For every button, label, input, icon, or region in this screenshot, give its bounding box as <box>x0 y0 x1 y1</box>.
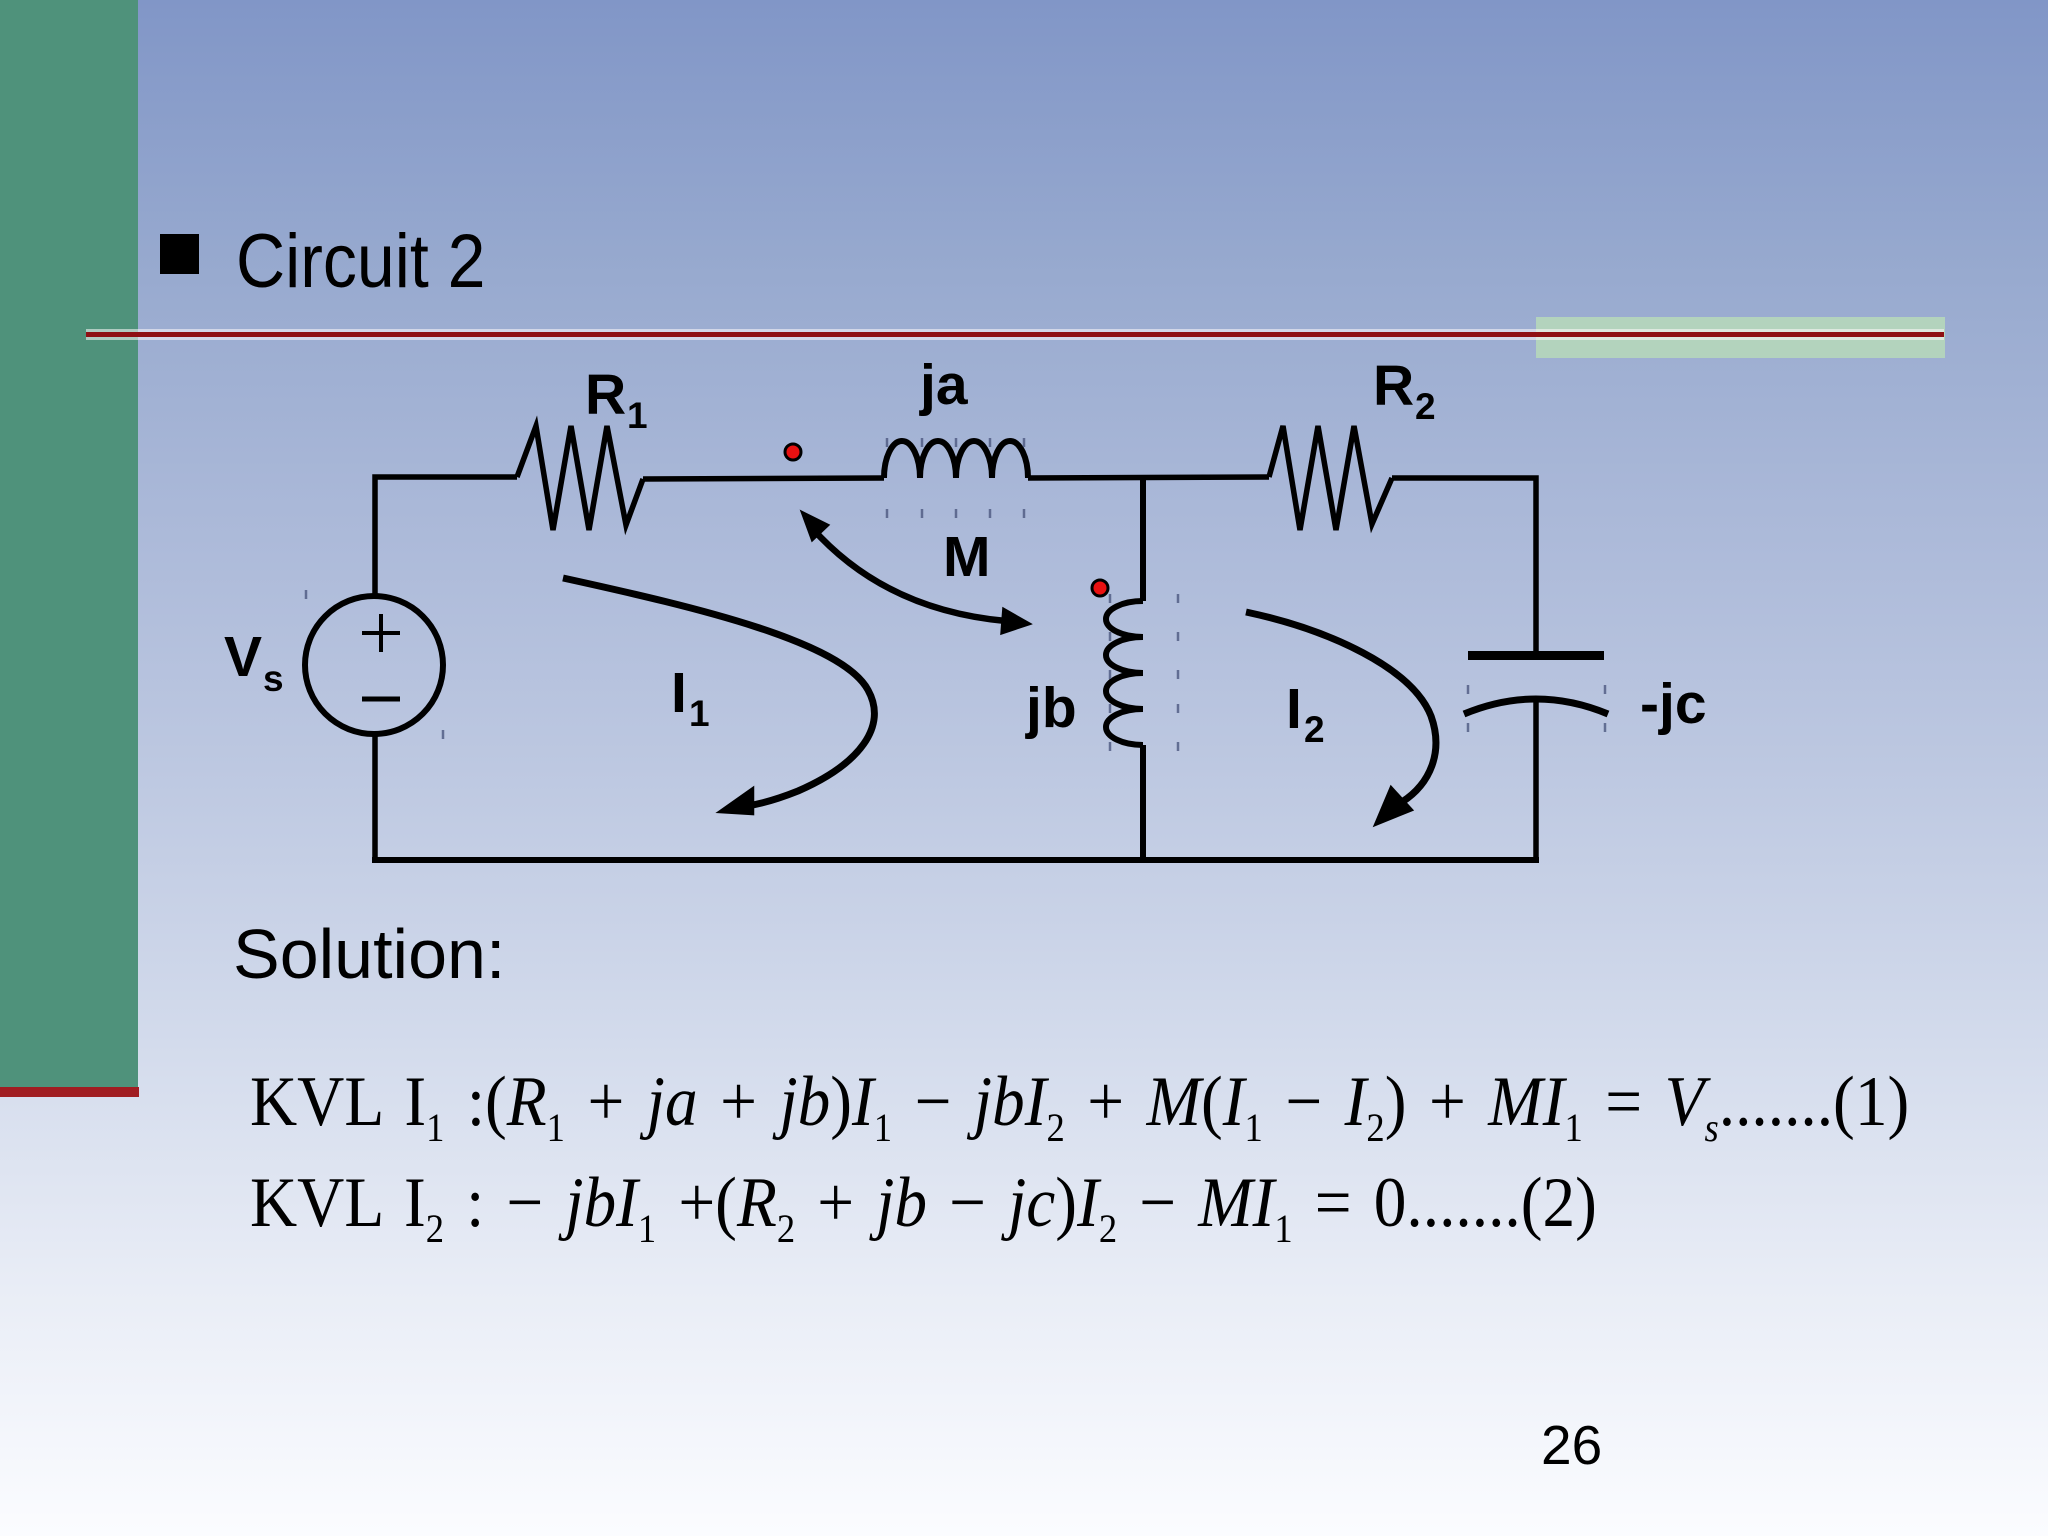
svg-text:M: M <box>943 525 990 589</box>
inductor ja <box>884 441 1028 478</box>
mesh current arrow I2 <box>1246 612 1436 825</box>
svg-text:s: s <box>263 658 284 699</box>
equation 2 <box>250 1168 1597 1239</box>
svg-text:R: R <box>1373 354 1414 418</box>
label R2 <box>1373 354 1436 427</box>
junction: bottom wire / middle branch node <box>1140 857 1146 863</box>
label I2 <box>1286 677 1325 750</box>
label ja <box>919 353 969 417</box>
mutual inductance arrow M (double headed) <box>801 511 1031 634</box>
capacitor -jc top plate <box>1468 651 1604 660</box>
svg-text:ja: ja <box>919 353 969 417</box>
svg-text:1: 1 <box>627 395 648 436</box>
bottom wire <box>372 857 1539 863</box>
tick marks flanking capacitor plate <box>1468 685 1605 732</box>
svg-text:jb: jb <box>1025 676 1077 740</box>
svg-text:I: I <box>671 661 687 725</box>
wire: R1 to inductor ja <box>643 478 884 479</box>
plus sign inside source <box>362 614 400 652</box>
junction: top wire / middle branch node <box>1140 475 1146 481</box>
wire: capacitor to bottom right corner <box>1533 696 1539 860</box>
core tick marks above ja <box>887 438 1024 447</box>
resistor R1 <box>517 426 643 530</box>
svg-text:2: 2 <box>1415 386 1436 427</box>
core tick marks right of jb <box>1177 594 1180 751</box>
left green sidebar <box>0 0 138 1087</box>
Solution heading <box>233 919 505 989</box>
svg-text:-jc: -jc <box>1640 672 1707 736</box>
capacitor -jc curved bottom plate <box>1464 699 1608 714</box>
core tick marks left of jb <box>1109 594 1112 751</box>
dark red bar under sidebar <box>0 1087 139 1097</box>
label M <box>943 525 990 589</box>
wire: R2 to right top corner <box>1392 478 1536 651</box>
svg-text:I: I <box>1286 677 1302 741</box>
page number <box>1541 1418 1602 1473</box>
label jb <box>1025 676 1077 740</box>
horizontal dark red rule <box>86 329 1944 332</box>
wire: top-left segment from source to R1 <box>375 477 517 597</box>
wire: below source to bottom wire <box>372 734 378 860</box>
svg-text:2: 2 <box>1304 709 1325 750</box>
green highlight band at right of rule <box>1536 317 1945 358</box>
label I1 <box>671 661 710 734</box>
wire: ja to R2 through middle junction <box>1028 477 1269 478</box>
core tick marks below ja <box>887 509 1024 518</box>
label R1 <box>585 363 648 436</box>
tick marks near source <box>306 590 443 739</box>
title bullet square <box>160 234 199 274</box>
svg-text:1: 1 <box>689 693 710 734</box>
mesh current arrow I1 <box>563 578 874 814</box>
minus sign inside source <box>362 697 400 702</box>
wire: middle branch bottom <box>1140 745 1146 860</box>
polarity dot near ja <box>785 444 801 460</box>
voltage source Vs circle <box>305 596 443 734</box>
inductor jb <box>1106 601 1143 745</box>
equation 1 <box>250 1067 1909 1138</box>
svg-text:R: R <box>585 363 626 427</box>
label Vs <box>224 625 284 699</box>
polarity dot near jb <box>1092 580 1108 596</box>
title text <box>236 224 485 300</box>
wire: middle branch top <box>1140 477 1146 601</box>
resistor R2 <box>1269 426 1392 530</box>
svg-text:V: V <box>224 625 262 689</box>
label -jc <box>1640 672 1707 736</box>
